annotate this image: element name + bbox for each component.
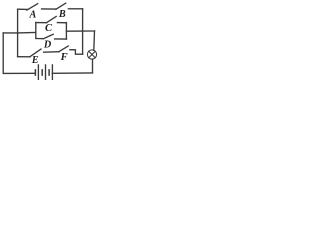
wire D branch right: [55, 38, 67, 40]
switch A blade: [27, 4, 38, 10]
svg-text:E: E: [31, 55, 39, 66]
wire E-row left horizontal: [18, 56, 30, 58]
svg-text:D: D: [43, 40, 52, 51]
wire bottom right: [52, 72, 92, 74]
wire rail to lamp: [83, 30, 95, 32]
wire D branch left: [36, 38, 44, 40]
wire between A and B: [42, 8, 56, 10]
wire C-loop right stub: [65, 23, 67, 39]
wire F to right vertical: [70, 50, 83, 55]
battery cell3 short plate: [48, 70, 50, 75]
svg-text:F: F: [60, 52, 68, 63]
lamp X diagonal 1: [89, 51, 96, 58]
wire left vertical: [17, 9, 19, 57]
svg-text:A: A: [29, 10, 37, 21]
wire C branch right: [57, 22, 66, 24]
switch E blade: [30, 49, 41, 57]
wire far-left vertical: [2, 33, 4, 73]
wire C branch left: [36, 22, 47, 24]
wire B to top-right corner: [68, 8, 82, 10]
wire middle rail left: [3, 32, 36, 34]
wire right vertical: [82, 9, 84, 54]
wire lamp top vertical: [93, 31, 96, 50]
wire middle rail right: [66, 30, 82, 32]
switch F blade: [59, 46, 68, 52]
battery cell2 short plate: [41, 70, 43, 75]
lamp bulb circle: [87, 50, 96, 59]
wire C-loop left stub: [35, 23, 37, 39]
wire bottom left: [3, 72, 35, 74]
wire top-left horizontal: [18, 8, 28, 10]
battery cell3 tall plate: [51, 65, 53, 80]
wire between E and F: [44, 51, 59, 54]
wire lamp bottom vertical: [92, 59, 94, 73]
battery cell1 short plate: [34, 70, 36, 75]
battery cell1 tall plate: [37, 65, 39, 80]
switch D blade: [43, 34, 53, 38]
svg-text:B: B: [58, 9, 66, 20]
battery cell2 tall plate: [45, 65, 47, 80]
svg-text:C: C: [45, 23, 53, 34]
switch C blade: [47, 16, 57, 22]
switch B blade: [56, 3, 66, 9]
lamp X diagonal 2: [89, 51, 96, 58]
